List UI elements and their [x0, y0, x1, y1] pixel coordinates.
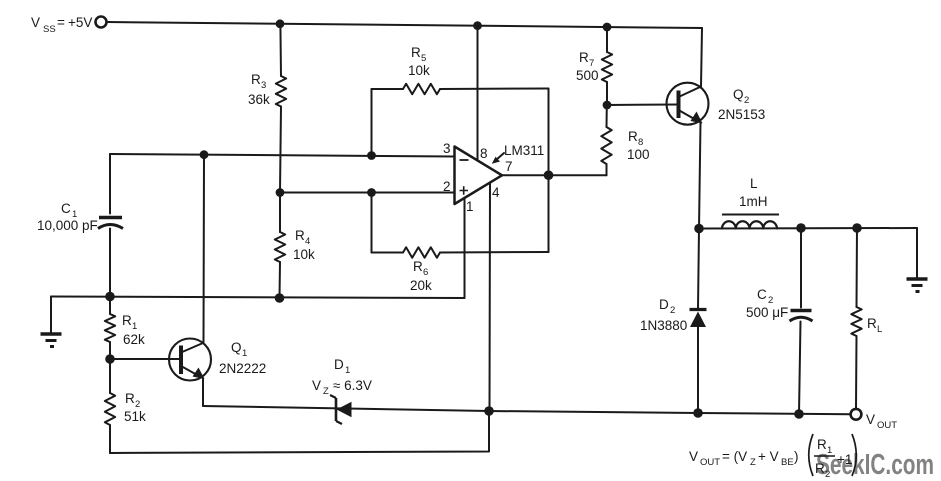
svg-text:V: V — [689, 449, 698, 464]
transistor Q2 2N5153 — [667, 83, 709, 125]
svg-text:1: 1 — [827, 445, 832, 456]
wire plus input (pin 2) — [280, 192, 455, 194]
svg-text:SS: SS — [43, 24, 56, 35]
svg-text:C: C — [757, 287, 767, 302]
svg-text:4: 4 — [305, 236, 310, 247]
node RL top — [852, 223, 862, 233]
capacitor C1 10,000 pF — [109, 154, 111, 214]
svg-text:R: R — [817, 437, 827, 452]
svg-text:62k: 62k — [123, 332, 145, 347]
node zener junction — [484, 406, 494, 416]
wire Q1 base — [110, 358, 181, 360]
svg-text:+1: +1 — [837, 452, 852, 467]
svg-text:+5V: +5V — [68, 15, 92, 30]
svg-text:Z: Z — [750, 457, 756, 468]
resistor RL — [856, 228, 859, 307]
op-amp U1 LM311 — [455, 147, 503, 205]
node C2 bottom — [794, 409, 804, 419]
svg-text:10k: 10k — [293, 247, 315, 262]
node R1-R2-base — [105, 354, 115, 364]
terminal VOUT — [851, 409, 862, 420]
svg-text:R: R — [815, 461, 825, 476]
wire Q2 base — [607, 104, 679, 107]
svg-text:10,000 pF: 10,000 pF — [37, 218, 98, 233]
arrow to op-amp body — [496, 153, 504, 160]
svg-text:20k: 20k — [410, 278, 432, 293]
svg-text:V: V — [312, 378, 321, 393]
resistor R4 10k — [279, 193, 281, 233]
svg-text:R: R — [251, 72, 261, 87]
svg-text:R: R — [125, 391, 135, 406]
resistor R7 500 — [606, 27, 608, 52]
svg-text:500: 500 — [576, 68, 599, 83]
svg-text:L: L — [877, 324, 882, 335]
capacitor C2 500uF — [800, 228, 802, 308]
svg-text:=: = — [57, 15, 65, 30]
wire pin8 to rail — [477, 26, 479, 161]
node R4 bottom — [275, 293, 285, 303]
transistor Q1 2N2222 — [169, 339, 211, 381]
resistor R2 51k — [109, 359, 111, 393]
node output junction — [544, 170, 554, 180]
svg-text:= (V: = (V — [722, 449, 747, 464]
svg-text:2: 2 — [744, 95, 749, 106]
node C2 top — [796, 223, 806, 233]
node plus-R6 — [367, 188, 376, 197]
svg-text:LM311: LM311 — [504, 143, 544, 158]
svg-text:2N2222: 2N2222 — [219, 361, 266, 376]
node L junction — [694, 224, 704, 234]
svg-text:6: 6 — [423, 267, 428, 278]
svg-text:1: 1 — [242, 348, 247, 359]
wire ground bus — [51, 297, 465, 299]
resistor R3 36k — [279, 24, 282, 76]
resistor R8 100 — [606, 105, 608, 127]
node rail-R7 — [603, 23, 612, 32]
resistor R1 62k — [109, 297, 111, 315]
svg-text:3: 3 — [443, 141, 451, 156]
wire op-amp output (pin 7) — [502, 174, 607, 176]
svg-text:V: V — [31, 15, 40, 30]
svg-text:51k: 51k — [124, 409, 146, 424]
svg-text:R: R — [411, 45, 421, 60]
svg-text:Q: Q — [231, 340, 242, 355]
svg-text:4: 4 — [492, 185, 500, 200]
node R7-R8-base — [603, 101, 612, 110]
svg-text:OUT: OUT — [877, 420, 897, 431]
svg-text:7: 7 — [505, 159, 513, 174]
svg-text:C: C — [61, 201, 71, 216]
node minus-R5 — [367, 151, 376, 160]
svg-text:10k: 10k — [408, 63, 430, 78]
svg-text:Z: Z — [323, 386, 329, 397]
node minus-Q1 collector — [200, 150, 209, 159]
svg-text:2: 2 — [825, 469, 830, 480]
diode D1 zener Vz=6.3V — [335, 398, 338, 421]
svg-text:500 μF: 500 μF — [746, 305, 788, 320]
svg-text:2N5153: 2N5153 — [718, 107, 765, 122]
svg-text:R: R — [579, 50, 589, 65]
svg-text:+ V: + V — [758, 449, 779, 464]
svg-text:2: 2 — [670, 305, 675, 316]
node C1-R1 — [105, 292, 115, 302]
svg-text:R: R — [122, 313, 132, 328]
resistor R6 20k — [371, 193, 373, 253]
wire pin 4 drop — [489, 184, 492, 412]
svg-text:R: R — [295, 228, 305, 243]
ground right — [916, 228, 918, 278]
node rail-pin8 — [473, 21, 482, 30]
resistor R5 10k — [371, 89, 373, 156]
svg-text:≈ 6.3V: ≈ 6.3V — [333, 378, 372, 393]
svg-text:R: R — [867, 316, 877, 331]
svg-text:): ) — [794, 449, 799, 464]
svg-text:R: R — [628, 129, 638, 144]
wire emitter/output bus — [203, 406, 851, 414]
svg-text:36k: 36k — [248, 92, 270, 107]
node D2 bottom — [693, 408, 703, 418]
svg-text:L: L — [750, 176, 758, 191]
ground left — [50, 297, 52, 334]
wire minus input (pin 3) — [110, 154, 455, 157]
node plus-R3R4 — [276, 188, 285, 197]
svg-text:100: 100 — [627, 147, 650, 162]
svg-text:8: 8 — [480, 146, 488, 161]
svg-text:3: 3 — [261, 80, 266, 91]
wire pin 1 drop — [464, 198, 466, 299]
node rail-R3 — [276, 19, 285, 28]
svg-text:V: V — [866, 412, 875, 427]
svg-text:OUT: OUT — [700, 457, 720, 468]
svg-text:Q: Q — [733, 87, 744, 102]
svg-text:D: D — [334, 357, 344, 372]
terminal VSS = +5V — [96, 17, 107, 28]
svg-text:1: 1 — [466, 199, 474, 214]
diode D2 1N3880 — [698, 229, 699, 310]
svg-text:1: 1 — [132, 321, 137, 332]
wire top rail — [107, 22, 702, 28]
svg-text:1N3880: 1N3880 — [640, 318, 687, 333]
inductor L 1mH — [722, 221, 777, 228]
wire R2 bottom return — [110, 411, 489, 453]
svg-text:SeekIC.com: SeekIC.com — [816, 449, 934, 481]
svg-text:BE: BE — [781, 457, 794, 468]
svg-text:D: D — [659, 297, 669, 312]
svg-text:1mH: 1mH — [739, 194, 768, 209]
svg-text:R: R — [413, 259, 423, 274]
svg-text:1: 1 — [345, 365, 350, 376]
